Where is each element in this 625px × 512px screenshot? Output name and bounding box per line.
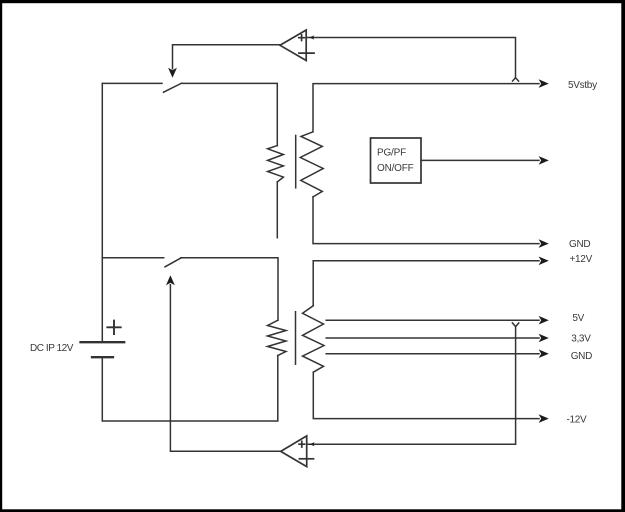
wire T1 secondary top lead and 5Vstby line (313, 84, 539, 132)
transformer T2 primary winding (268, 320, 287, 355)
block PG/PF ON/OFF (371, 138, 422, 183)
wire switch2 left segment (102, 257, 163, 259)
transformer T2 secondary winding (303, 306, 325, 373)
frame border bottom (0, 509, 625, 512)
battery plus sign (107, 321, 120, 334)
wire T1 primary bottom lead (open end) (276, 182, 278, 238)
arrowhead +12V output (539, 257, 549, 266)
arrowhead U2 plus input (310, 442, 315, 446)
wire T2 secondary bottom lead and -12V line (313, 372, 539, 418)
arrowhead 3,3V output (539, 334, 549, 343)
arrowhead U1 plus input (309, 35, 314, 39)
battery BT1 positive plate (81, 341, 125, 343)
frame border top (0, 0, 625, 3)
wire switch1 right segment to transformer T1 primary (182, 83, 278, 145)
wire U2 output to switch2 arrow (170, 285, 280, 452)
node Y-tap on 5V line (512, 323, 518, 327)
arrowhead down at switch S1 (168, 68, 177, 78)
wire feedback U1 plus input from 5Vstby (306, 38, 515, 78)
arrowhead up at switch S2 (166, 275, 175, 285)
svg-text:GND: GND (569, 239, 590, 250)
wire PG/PF output line (421, 159, 539, 161)
arrowhead -12V output (539, 414, 549, 423)
transformer T2 core (295, 312, 297, 365)
wire switch1 left segment (102, 82, 162, 84)
op-amp U2 (281, 436, 314, 467)
svg-text:+12V: +12V (570, 254, 593, 265)
wire GND tap line (326, 353, 539, 355)
svg-text:PG/PF: PG/PF (377, 148, 406, 159)
arrowhead 5V output (539, 316, 549, 325)
switch S2 blade (165, 258, 181, 267)
transformer T1 secondary winding (300, 132, 323, 197)
frame border right (621, 0, 625, 512)
wire feedback U2 plus input from 5V (308, 327, 516, 445)
arrowhead PG/PF output (539, 156, 549, 165)
op-amp U1 (280, 30, 314, 61)
frame border left (0, 0, 2, 512)
node Y-tap on 5Vstby line (513, 78, 519, 81)
wire T2 primary bottom return to battery minus (102, 356, 277, 422)
wire switch2 right segment to T2 primary (181, 258, 278, 321)
svg-text:5Vstby: 5Vstby (568, 80, 597, 91)
wire 3,3V tap line (326, 337, 539, 339)
transformer T1 primary winding (268, 146, 284, 182)
battery BT1 negative plate (92, 356, 113, 358)
arrowhead GND2 output (539, 349, 549, 358)
wire 5V tap line (326, 319, 539, 321)
switch S1 blade (164, 83, 182, 92)
arrowhead GND output (539, 239, 549, 248)
wire U1 output to switch1 arrow (173, 45, 281, 69)
svg-text:5V: 5V (572, 313, 584, 324)
arrowhead 5Vstby output (539, 79, 549, 88)
wire left bus vertical (battery + to switch line) (101, 83, 103, 342)
svg-text:ON/OFF: ON/OFF (377, 163, 414, 174)
svg-text:DC IP 12V: DC IP 12V (30, 343, 74, 354)
wire +12V line to T2 secondary top lead (313, 261, 539, 306)
svg-text:-12V: -12V (567, 415, 588, 426)
svg-text:GND: GND (571, 351, 592, 362)
svg-text:3,3V: 3,3V (571, 334, 591, 345)
transformer T1 core (295, 135, 297, 187)
wire T1 secondary bottom lead and GND line (313, 197, 539, 244)
